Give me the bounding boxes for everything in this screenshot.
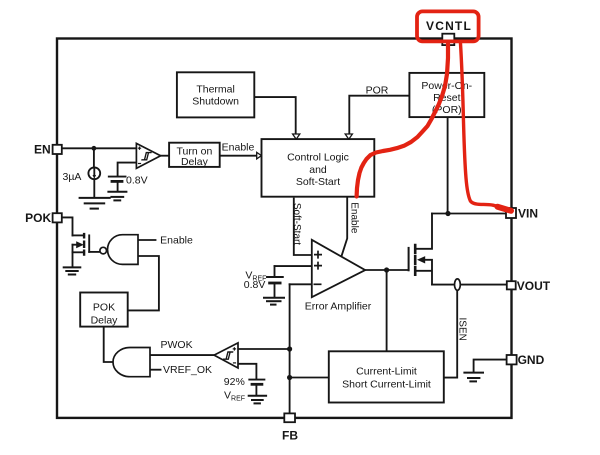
svg-text:POR: POR [366, 85, 389, 97]
svg-text:and: and [309, 164, 327, 176]
svg-text:Delay: Delay [181, 156, 209, 168]
svg-text:Short Current-Limit: Short Current-Limit [342, 378, 431, 390]
svg-text:Control Logic: Control Logic [287, 151, 349, 163]
svg-text:FB: FB [282, 428, 298, 442]
svg-text:Error Amplifier: Error Amplifier [305, 300, 372, 312]
svg-text:Enable: Enable [222, 142, 255, 154]
svg-text:92%: 92% [224, 376, 245, 388]
svg-text:VREF_OK: VREF_OK [163, 364, 212, 376]
svg-text:Enable: Enable [160, 235, 193, 247]
svg-text:Soft-Start: Soft-Start [291, 203, 302, 245]
svg-text:EN: EN [34, 143, 51, 157]
svg-text:0.8V: 0.8V [126, 175, 148, 187]
svg-text:Shutdown: Shutdown [192, 96, 239, 108]
svg-text:VIN: VIN [518, 206, 538, 220]
svg-text:PWOK: PWOK [161, 339, 193, 351]
svg-text:Delay: Delay [91, 314, 119, 326]
svg-text:Thermal: Thermal [196, 83, 235, 95]
svg-text:Enable: Enable [348, 202, 359, 234]
svg-text:GND: GND [518, 353, 545, 367]
svg-text:VCNTL: VCNTL [426, 19, 472, 33]
svg-text:Current-Limit: Current-Limit [356, 366, 417, 378]
svg-text:POK: POK [93, 302, 115, 314]
svg-text:Reset: Reset [433, 92, 461, 104]
svg-text:ISEN: ISEN [456, 318, 467, 341]
svg-text:Soft-Start: Soft-Start [296, 176, 340, 188]
svg-text:POK: POK [25, 211, 51, 225]
svg-text:VOUT: VOUT [517, 279, 551, 293]
svg-text:3µA: 3µA [63, 171, 82, 183]
